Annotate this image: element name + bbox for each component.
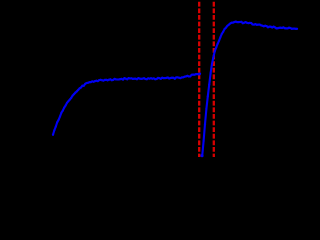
blue curve right branch markers — [201, 21, 298, 158]
red dashed vertical line 2 (right bound of equivalence region) — [213, 2, 215, 157]
blue curve right branch bottom blob — [200, 154, 203, 157]
blue curve right branch — [202, 22, 297, 156]
blue curve left branch markers — [52, 73, 201, 136]
plot canvas — [0, 0, 300, 192]
blue curve left branch end marker at line 1 — [198, 73, 201, 76]
blue curve left branch — [53, 74, 200, 135]
red dashed vertical line 1 (left bound of equivalence region) — [198, 2, 200, 157]
